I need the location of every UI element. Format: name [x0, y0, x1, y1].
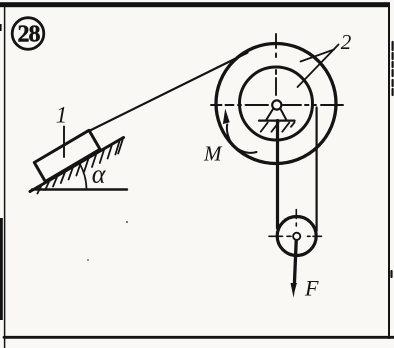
frame left edge blob: [0, 218, 3, 320]
rope right (pulley 2 to pulley 3): [316, 108, 318, 232]
speck dot 2: [87, 259, 89, 261]
incline hatching: [37, 139, 122, 193]
frame bottom bar: [4, 336, 394, 339]
frame right line: [388, 4, 390, 338]
rope left (pulley 2 to pulley 3): [276, 121, 279, 229]
pulley 3 axle pin: [293, 233, 300, 240]
pulley 2 inner circle: [240, 67, 313, 140]
rope from block to pulley: [89, 53, 248, 131]
frame left line: [4, 6, 6, 348]
pulley 2 horizontal centerline: [211, 104, 343, 106]
label 2 leader lines: [298, 45, 339, 88]
svg-text:28: 28: [18, 21, 41, 47]
force arrow F: [294, 236, 296, 284]
incline surface line: [30, 138, 124, 192]
pivot hatching: [261, 122, 295, 132]
svg-text:M: M: [203, 142, 223, 166]
pivot triangle: [266, 108, 273, 119]
pivot pin: [272, 100, 281, 109]
pulley 3 circle: [277, 217, 316, 256]
block 1: [34, 130, 100, 181]
pulley 3 vertical centerline: [295, 210, 297, 227]
incline base line: [32, 188, 127, 190]
speck dot 1: [126, 221, 128, 223]
pivot ground line: [259, 119, 295, 121]
pulley 2 vertical centerline: [275, 34, 277, 95]
svg-text:α: α: [92, 160, 107, 189]
leader line 1: [63, 127, 65, 158]
moment arrow M: [227, 125, 257, 153]
angle arc alpha: [79, 163, 86, 190]
svg-text:2: 2: [341, 30, 352, 54]
pulley 2 outer circle: [216, 44, 336, 164]
problem number badge 28: [12, 18, 44, 50]
svg-text:F: F: [304, 276, 319, 301]
frame left edge tick: [0, 24, 2, 31]
frame right edge dashes: [392, 42, 393, 277]
frame top bar: [0, 2, 390, 7]
svg-text:1: 1: [56, 103, 68, 128]
pulley 3 horizontal centerline: [269, 235, 322, 237]
